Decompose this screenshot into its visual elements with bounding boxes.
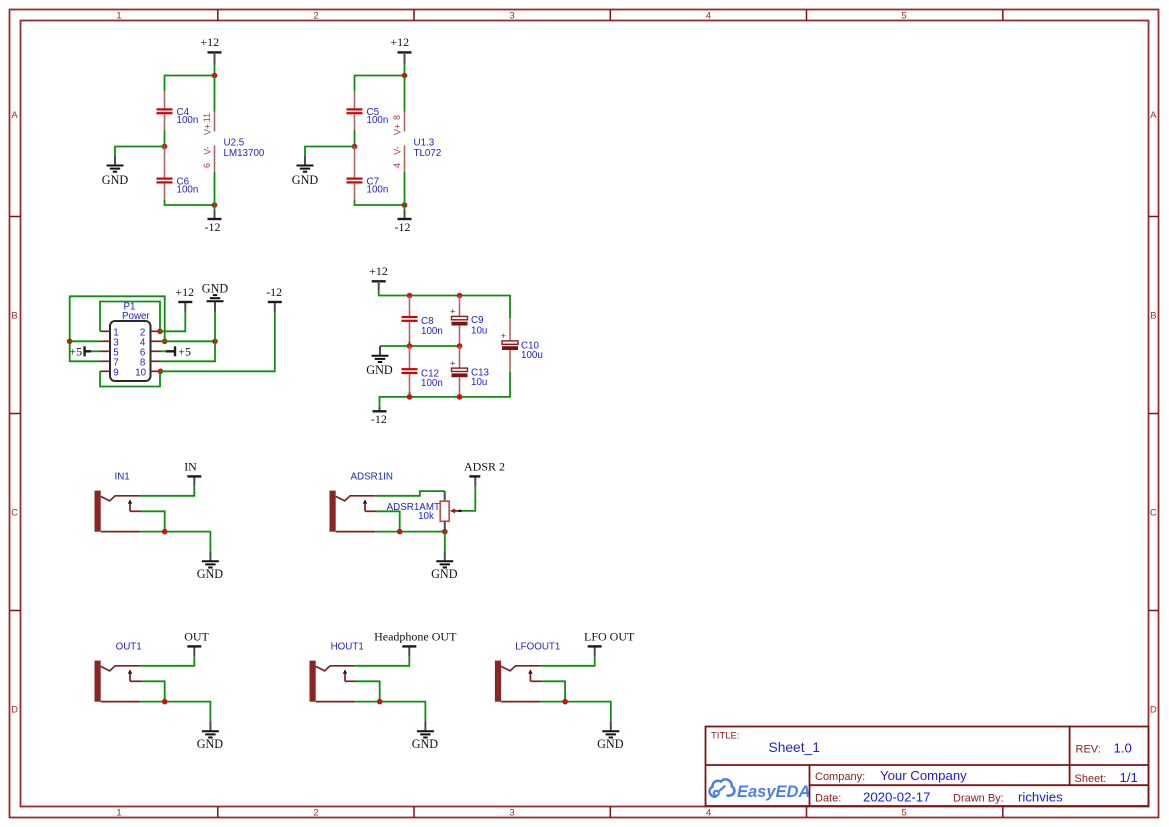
junction pin2 (157, 329, 163, 335)
svg-text:C: C (1150, 507, 1157, 518)
capacitor C12 100n (402, 346, 443, 392)
ground GND (C5 block) (292, 156, 319, 187)
wire sleeve to ground (355, 702, 425, 722)
junction sleeve/switch (162, 529, 168, 535)
svg-text:10: 10 (135, 367, 146, 378)
capacitor C9 10u (electrolytic) (459, 296, 461, 317)
svg-text:2: 2 (313, 807, 318, 818)
svg-text:3: 3 (509, 11, 514, 22)
wire tip to OUT flag (140, 656, 194, 666)
svg-text:Headphone OUT: Headphone OUT (374, 629, 457, 643)
svg-text:2: 2 (313, 11, 318, 22)
svg-text:10u: 10u (471, 377, 487, 388)
wire mid junction to ground (115, 147, 165, 157)
svg-text:C9: C9 (471, 315, 484, 326)
net port +5 (pin5, left) (69, 345, 91, 359)
OUT1 tip contact (101, 666, 141, 671)
LFOOUT1 switch contact (528, 669, 541, 681)
P1 pin 3 (100, 337, 119, 348)
connector IN1 (audio jack) (95, 471, 130, 531)
svg-text:GND: GND (597, 737, 624, 751)
wire pin6 to +5 (161, 350, 167, 352)
HOUT1 switch contact (343, 669, 356, 681)
svg-text:+12: +12 (369, 264, 388, 278)
svg-text:Drawn By:: Drawn By: (953, 793, 1004, 805)
capacitor C10 100u (electrolytic) (509, 318, 511, 341)
svg-text:A: A (1150, 110, 1157, 121)
wire +12 down to rail (214, 65, 216, 76)
svg-text:5: 5 (901, 11, 906, 22)
svg-text:D: D (1150, 704, 1157, 715)
junction pin4 (162, 339, 168, 345)
connector ADSR1IN (audio jack) (330, 471, 393, 531)
wire top rail to capacitor column (165, 76, 215, 92)
svg-text:100n: 100n (367, 185, 389, 196)
svg-text:1/1: 1/1 (1120, 770, 1138, 785)
capacitor C4 100n (157, 91, 199, 131)
svg-text:-12: -12 (395, 220, 411, 234)
wire to mid junction (164, 131, 166, 147)
op-amp U1.3 power pins TL072 (392, 76, 441, 206)
ground GND (HOUT1) (412, 722, 439, 751)
wire pin10 to -12 flag (161, 312, 275, 372)
wire pin1 to pin2 (+12 net) (100, 302, 160, 332)
junction GND branch (212, 339, 218, 345)
junction bottom C9 (457, 394, 463, 400)
svg-text:Power: Power (122, 311, 151, 322)
connector HOUT1 (audio jack) (310, 641, 364, 701)
svg-text:+12: +12 (175, 285, 194, 299)
svg-text:-12: -12 (266, 285, 282, 299)
svg-text:GND: GND (197, 737, 224, 751)
capacitor C13 10u (electrolytic) (459, 346, 461, 368)
svg-text:100n: 100n (421, 378, 443, 389)
P1 pin 2 (140, 327, 161, 338)
P1 pin 9 (100, 367, 119, 378)
ground GND (ADSR1IN) (431, 552, 458, 581)
capacitor C6 100n (157, 147, 199, 201)
net flag LFO OUT (584, 629, 635, 656)
svg-text:GND: GND (202, 282, 229, 296)
svg-text:+5: +5 (69, 345, 82, 359)
junction sleeve/switch (162, 699, 168, 705)
svg-text:Company:: Company: (815, 771, 865, 783)
connector OUT1 (audio jack) (95, 641, 142, 701)
power flag -12 (C4 block) (205, 205, 222, 234)
wire +12 down to rail (404, 65, 406, 76)
wire switch to sleeve net (376, 511, 400, 531)
svg-text:LFOOUT1: LFOOUT1 (515, 641, 560, 652)
svg-text:100n: 100n (421, 326, 443, 337)
HOUT1 sleeve contact (316, 701, 356, 703)
svg-text:1: 1 (116, 807, 121, 818)
net flag Headphone OUT (374, 629, 457, 656)
svg-text:11: 11 (202, 113, 212, 122)
C13 lower pin (459, 377, 461, 397)
svg-text:100n: 100n (177, 115, 199, 126)
svg-text:10u: 10u (471, 326, 487, 337)
svg-text:D: D (11, 704, 18, 715)
junction bottom (402, 202, 408, 208)
net flag IN (184, 459, 201, 486)
svg-text:TITLE:: TITLE: (711, 731, 740, 742)
wire pin9 loop to pin10 (100, 371, 160, 386)
svg-text:EasyEDA: EasyEDA (737, 783, 810, 801)
wire bottom rail (355, 200, 405, 205)
power flag -12 (C5 block) (395, 205, 412, 234)
svg-text:-12: -12 (205, 220, 221, 234)
wire to mid junction (354, 131, 356, 147)
wire tip to LFO OUT flag (541, 656, 595, 666)
svg-text:LFO OUT: LFO OUT (584, 629, 635, 643)
junction sleeve/switch (377, 699, 383, 705)
wire wiper to ADSR 2 flag (462, 486, 476, 511)
svg-text:100u: 100u (521, 350, 543, 361)
C10 lower pin (509, 350, 511, 372)
svg-text:V+: V+ (393, 124, 403, 135)
junction mid (352, 144, 358, 150)
P1 pin 7 (100, 357, 119, 368)
svg-text:-12: -12 (371, 412, 387, 426)
ADSR1IN sleeve contact (336, 531, 376, 533)
LFOOUT1 sleeve contact (501, 701, 540, 703)
wire sleeve to ground (541, 702, 611, 722)
svg-text:8: 8 (392, 115, 402, 120)
svg-text:IN: IN (184, 459, 197, 473)
title block (706, 727, 1149, 807)
P1 pin 10 (135, 367, 160, 378)
junction mid C9 (457, 343, 463, 349)
wire switch to sleeve net (141, 681, 165, 701)
HOUT1 tip contact (316, 666, 356, 671)
wire tip to potentiometer top (375, 491, 445, 496)
svg-text:B: B (1150, 310, 1156, 321)
capacitor C7 100n (347, 147, 389, 201)
svg-text:C: C (11, 507, 18, 518)
power flag +12 (C5 block) (390, 35, 411, 64)
svg-text:Sheet:: Sheet: (1075, 773, 1107, 785)
svg-text:+5: +5 (178, 345, 191, 359)
wire pin2 to +12 flag (160, 312, 185, 332)
svg-text:TL072: TL072 (414, 148, 442, 159)
net flag OUT (184, 629, 209, 656)
svg-text:LM13700: LM13700 (224, 148, 265, 159)
IN1 switch contact (128, 499, 141, 511)
junction switch/sleeve (397, 529, 403, 535)
svg-text:U1.3: U1.3 (414, 137, 435, 148)
svg-text:U2.5: U2.5 (224, 137, 245, 148)
wire GND flag stem (214, 312, 216, 342)
capacitor C8 100n (402, 296, 443, 342)
wire C12 to bottom rail (409, 392, 411, 397)
wire +5 to pin5 (91, 350, 100, 352)
svg-text:richvies: richvies (1018, 789, 1063, 804)
svg-text:GND: GND (197, 567, 224, 581)
ADSR1IN switch contact (363, 499, 376, 511)
junction top (212, 73, 218, 79)
C9 lower pin (459, 326, 461, 347)
potentiometer ADSR1AMT 10k (387, 491, 462, 531)
power flag +12 (C4 block) (200, 35, 221, 64)
wire mid junction to ground (305, 147, 355, 157)
junction top (402, 73, 408, 79)
svg-text:REV:: REV: (1076, 744, 1101, 756)
svg-text:4: 4 (706, 807, 711, 818)
wire pin4 to GND flag (161, 340, 216, 342)
svg-text:V-: V- (393, 146, 403, 155)
connector LFOOUT1 (audio jack) (495, 641, 560, 701)
P1 pin 4 (140, 337, 161, 348)
junction sleeve/switch (562, 699, 568, 705)
svg-text:Sheet_1: Sheet_1 (769, 740, 820, 755)
svg-text:IN1: IN1 (115, 471, 130, 482)
svg-text:5: 5 (901, 807, 906, 818)
ground GND (cap bank) (366, 346, 393, 377)
P1 pin 8 (140, 357, 161, 368)
P1 pin 5 (100, 347, 119, 358)
OUT1 sleeve contact (101, 701, 141, 703)
P1 pin 1 (100, 327, 119, 338)
svg-text:V-: V- (203, 146, 213, 155)
ground GND (OUT1) (197, 722, 224, 751)
wire pot bottom to ground (444, 532, 446, 552)
wire pin8 loop (161, 341, 216, 361)
svg-text:ADSR1IN: ADSR1IN (351, 471, 393, 482)
op-amp U2.5 power pins LM13700 (202, 76, 265, 206)
ADSR1IN tip contact (336, 496, 376, 501)
svg-text:3: 3 (509, 807, 514, 818)
ground GND (IN1) (197, 552, 224, 581)
svg-text:100n: 100n (177, 185, 199, 196)
wire sleeve to ground (140, 702, 210, 722)
ground GND (C4 block) (102, 156, 129, 187)
svg-text:1: 1 (116, 11, 121, 22)
OUT1 switch contact (128, 669, 141, 681)
junction pot bottom (442, 529, 448, 535)
wire pin7/pin3 to top (GND net) (70, 296, 165, 361)
LFOOUT1 tip contact (501, 666, 540, 671)
svg-text:+12: +12 (390, 35, 409, 49)
wire switch to sleeve net (541, 681, 565, 701)
wire to pin3 (70, 340, 100, 342)
power flag +12 (cap bank) (369, 264, 388, 290)
capacitor C5 100n (347, 91, 389, 131)
connector P1 Power (110, 302, 151, 382)
IN1 sleeve contact (101, 531, 141, 533)
ground GND (LFOOUT1) (597, 722, 624, 751)
svg-text:A: A (11, 110, 18, 121)
wire C8 to mid rail (409, 341, 411, 346)
junction mid C8 (407, 343, 413, 349)
wire bottom rail (380, 372, 511, 407)
wire switch to sleeve net (356, 681, 380, 701)
svg-text:ADSR 2: ADSR 2 (464, 459, 505, 473)
junction mid (162, 144, 168, 150)
svg-text:100n: 100n (367, 115, 389, 126)
svg-text:1.0: 1.0 (1114, 741, 1132, 756)
wire bottom rail (165, 200, 215, 205)
svg-text:GND: GND (292, 173, 319, 187)
svg-text:Your Company: Your Company (880, 768, 967, 783)
svg-text:Date:: Date: (815, 792, 841, 804)
svg-text:2020-02-17: 2020-02-17 (863, 789, 930, 804)
wire switch to sleeve net (141, 511, 165, 531)
wire sleeve to ground (140, 532, 210, 552)
svg-text:OUT1: OUT1 (116, 641, 142, 652)
junction pin10 (158, 369, 164, 375)
junction bottom (212, 202, 218, 208)
power flag -12 (P1) (266, 285, 282, 312)
net port +5 (pin6, right) (166, 345, 191, 359)
svg-text:+12: +12 (200, 35, 219, 49)
svg-text:9: 9 (113, 367, 118, 378)
svg-text:HOUT1: HOUT1 (331, 641, 364, 652)
wire tip to Headphone OUT flag (355, 656, 409, 666)
junction top C8 (407, 293, 413, 299)
net flag ADSR 2 (464, 459, 505, 486)
svg-text:10k: 10k (418, 511, 434, 522)
power flag -12 (cap bank) (371, 407, 387, 426)
svg-text:B: B (11, 310, 17, 321)
wire sleeve rail (375, 531, 445, 533)
wire tip to IN flag (140, 486, 194, 496)
junction bottom C8 (407, 394, 413, 400)
svg-text:4: 4 (392, 163, 402, 168)
svg-text:OUT: OUT (184, 629, 209, 643)
junction top C9 (457, 293, 463, 299)
P1 pin 6 (140, 347, 161, 358)
svg-text:V+: V+ (203, 124, 213, 135)
ground GND (P1, pointing up) (202, 282, 229, 312)
EasyEDA logo (710, 779, 811, 801)
svg-text:GND: GND (366, 363, 393, 377)
wire mid rail (GND) (380, 345, 460, 347)
IN1 tip contact (101, 496, 141, 501)
wire top rail to capacitor column (355, 76, 405, 92)
svg-text:GND: GND (431, 567, 458, 581)
junction pin3 branch (67, 339, 73, 345)
svg-text:6: 6 (202, 163, 212, 168)
wire +12 rail top (379, 290, 510, 318)
svg-text:GND: GND (412, 737, 439, 751)
svg-text:GND: GND (102, 173, 129, 187)
svg-text:4: 4 (706, 11, 711, 22)
power flag +12 (P1) (175, 285, 194, 312)
